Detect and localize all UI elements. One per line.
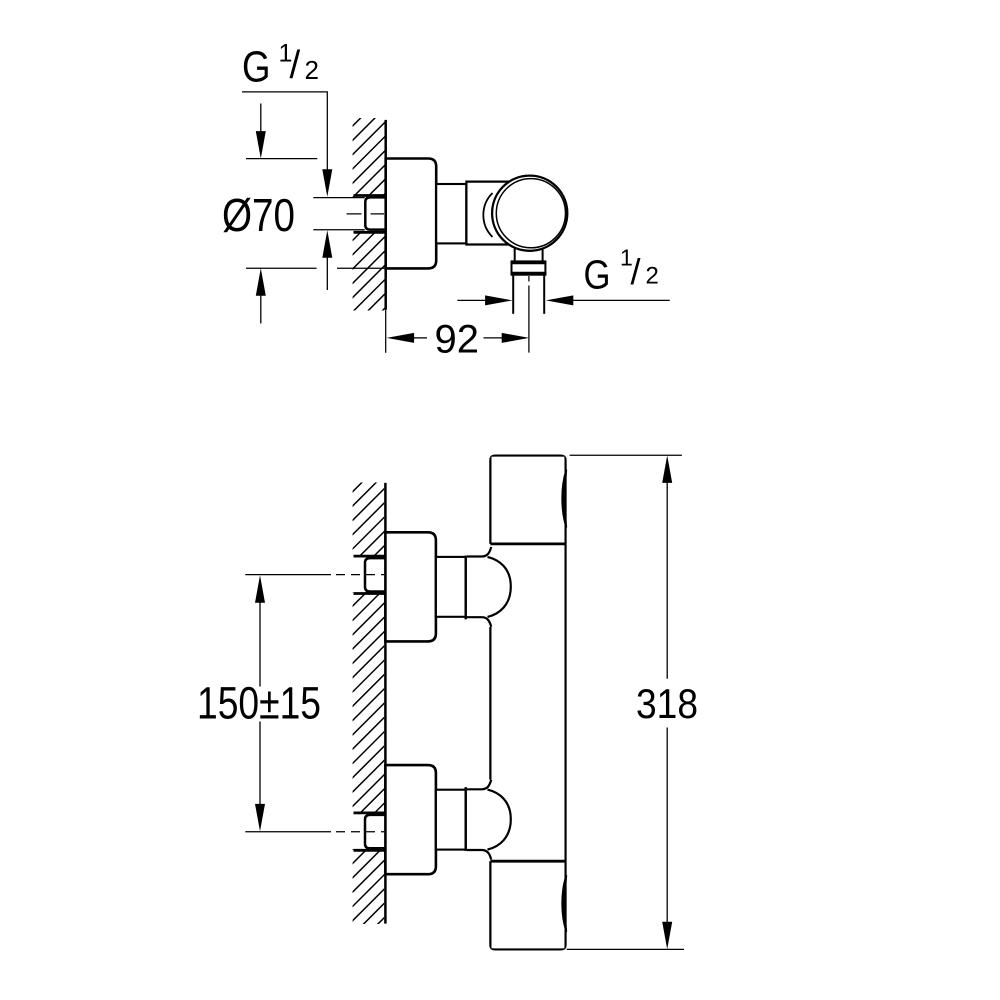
lower escutcheon [385, 765, 436, 874]
upper union flange [465, 556, 467, 620]
arrow down at nipple top [322, 169, 332, 197]
connecting cylinder (top view) [436, 184, 466, 243]
dimension G1/2 (outlet) text [584, 245, 659, 298]
top cap shading crescent [562, 470, 566, 528]
bar cap joint (top) [490, 543, 565, 546]
svg-text:Ø70: Ø70 [222, 189, 295, 241]
dimension 318 [570, 454, 682, 456]
upper union bell [467, 547, 511, 627]
arrow up at nipple bottom [322, 230, 332, 257]
svg-text:G: G [242, 42, 271, 91]
valve body (top view) [466, 182, 509, 245]
thermostat bar body [490, 456, 565, 950]
outlet neck below handle [514, 248, 516, 262]
wall line (bottom view) [384, 483, 387, 924]
handle outer circle [492, 176, 567, 251]
lower union nut [436, 790, 466, 850]
outlet dim arrows [457, 299, 486, 301]
wall hatching (top view) [310, 30, 420, 426]
handle inner circle [496, 179, 565, 248]
dimension 150+-15 [245, 574, 331, 576]
nipple extension lines [313, 197, 364, 199]
svg-text:2: 2 [646, 263, 659, 290]
handle rear flange arc (right sliver) [565, 207, 567, 221]
O70 extension lines [246, 158, 317, 160]
escutcheon (top view) [386, 159, 437, 269]
wall extension line for 92 dim [385, 310, 387, 353]
svg-text:92: 92 [435, 318, 480, 362]
lower supply stubs [354, 812, 386, 815]
upper escutcheon [385, 532, 436, 641]
supply stub edges (top view) [354, 194, 386, 197]
handle rear flange arc (left sliver) [483, 193, 492, 237]
socket clearance (white strip in wall) [352, 197, 366, 231]
bottom cap shading crescent [562, 875, 566, 932]
lower wall nipple [365, 815, 386, 848]
O70 arrows [260, 104, 262, 133]
lower socket clearance [352, 814, 365, 849]
wall line (top view) [384, 120, 387, 310]
svg-text:2: 2 [305, 55, 319, 85]
svg-text:318: 318 [636, 680, 698, 727]
upper supply stubs [354, 555, 386, 558]
lower union bell [467, 780, 511, 860]
bar cap joint (bottom) [490, 860, 565, 863]
svg-text:G: G [584, 251, 611, 297]
wall nipple (top view) [365, 197, 386, 229]
upper socket clearance [352, 557, 365, 592]
svg-text:150±15: 150±15 [197, 678, 321, 729]
outlet pipe [512, 275, 514, 314]
upper wall nipple [365, 558, 386, 591]
dimension G1/2 (top left) text [242, 40, 319, 92]
G1/2 leader line [242, 92, 327, 170]
svg-text:/: / [631, 251, 641, 292]
outlet centre line [528, 276, 530, 282]
svg-text:/: / [290, 44, 301, 87]
lower union flange [465, 787, 467, 851]
upper union nut [436, 557, 466, 617]
outlet collar nut [512, 261, 546, 274]
wall hatching (bottom view) [310, 400, 430, 1000]
nipple centre line (top view) [347, 213, 385, 215]
